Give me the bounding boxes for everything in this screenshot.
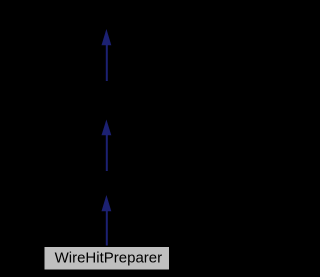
svg-text:WireHitPreparer: WireHitPreparer bbox=[55, 250, 163, 267]
